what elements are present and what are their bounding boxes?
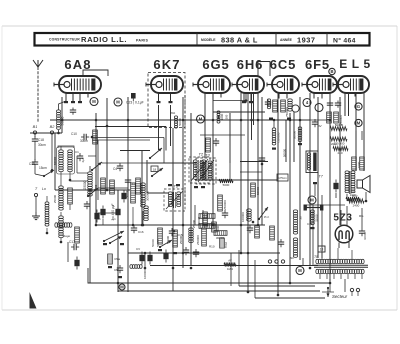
fold mark bbox=[30, 292, 37, 309]
svg-text:C5: C5 bbox=[114, 268, 118, 272]
resistor R17 50000 bbox=[197, 212, 207, 226]
wire bus bbox=[118, 290, 320, 292]
coil L9 bbox=[55, 223, 72, 228]
resistor R41 1000 2,5W bbox=[346, 190, 360, 201]
resistor R8 bbox=[327, 112, 332, 123]
capacitor C2 bbox=[75, 150, 85, 163]
power transformer T6 bbox=[314, 248, 368, 292]
wire grid loop 6C5 bbox=[258, 62, 270, 77]
svg-text:838 A & L: 838 A & L bbox=[221, 35, 258, 44]
resistor R24 bbox=[158, 228, 163, 244]
capacitor C5b bbox=[114, 265, 123, 278]
small box 18 bbox=[151, 166, 158, 172]
capacitor C16 bbox=[304, 205, 324, 211]
label T bbox=[35, 187, 46, 191]
svg-text:CONSTRUCTEUR: CONSTRUCTEUR bbox=[49, 38, 80, 42]
tube V3 6G5 bbox=[193, 76, 230, 99]
svg-text:ANNÉE: ANNÉE bbox=[280, 37, 293, 42]
socket B1 bbox=[33, 131, 36, 137]
wire bbox=[303, 195, 322, 266]
svg-text:50.00: 50.00 bbox=[315, 214, 319, 221]
wire bbox=[88, 268, 92, 283]
capacitor C13e bbox=[94, 210, 99, 223]
capacitor C10 bbox=[71, 132, 93, 143]
wire bbox=[92, 135, 245, 163]
label Rage bbox=[63, 234, 71, 238]
svg-text:T2: T2 bbox=[198, 152, 203, 157]
connector right 2 bbox=[355, 119, 362, 126]
coil L1 bbox=[45, 196, 49, 234]
transformer T3 bbox=[196, 153, 216, 185]
tube V7 EL5 bbox=[333, 76, 369, 116]
svg-text:MODÈLE: MODÈLE bbox=[201, 37, 216, 42]
capacitor C19 bbox=[29, 159, 47, 170]
capacitor C30 bbox=[169, 228, 183, 237]
wire bbox=[35, 167, 44, 176]
svg-text:1937: 1937 bbox=[297, 35, 315, 44]
resistor R4 1000 bbox=[217, 111, 229, 123]
indicator M9 bbox=[119, 284, 125, 290]
svg-text:5Ω: 5Ω bbox=[290, 256, 294, 260]
capacitor C14 bbox=[278, 239, 284, 247]
label tube 6K7 bbox=[153, 57, 180, 72]
wire bus bbox=[120, 150, 150, 152]
wire bbox=[356, 131, 362, 140]
wire bbox=[289, 120, 291, 162]
mains plug bbox=[350, 288, 359, 296]
capacitor C27 bbox=[265, 100, 271, 107]
resistor R7b 750000 bbox=[272, 119, 281, 150]
wire bbox=[306, 204, 345, 206]
resistor R19 30000 bbox=[214, 231, 227, 240]
wire bbox=[329, 266, 331, 284]
svg-text:2 x 450 μμF: 2 x 450 μμF bbox=[111, 203, 115, 220]
wire bus bbox=[147, 192, 168, 194]
svg-text:30000: 30000 bbox=[293, 130, 297, 139]
capacitor C3 bbox=[70, 108, 76, 115]
svg-text:1MΩ: 1MΩ bbox=[227, 267, 233, 271]
electrolytic C20 bbox=[333, 180, 338, 199]
svg-text:C17: C17 bbox=[69, 240, 75, 244]
svg-text:750.000: 750.000 bbox=[277, 132, 281, 143]
resistor R16 50000 bbox=[251, 183, 260, 197]
svg-text:100000: 100000 bbox=[143, 269, 147, 279]
indicator M7 bbox=[308, 196, 316, 204]
label B2 bbox=[50, 125, 56, 129]
label B1 bbox=[33, 125, 38, 129]
coil L12 bbox=[189, 228, 194, 243]
capacitor C15c bbox=[84, 201, 121, 221]
resistor R7 bbox=[281, 100, 289, 117]
svg-text:T8: T8 bbox=[314, 255, 318, 259]
svg-text:30cm: 30cm bbox=[80, 139, 88, 143]
wire bus bbox=[88, 282, 330, 284]
svg-text:30cm: 30cm bbox=[38, 143, 46, 147]
wire bbox=[310, 119, 330, 121]
wire bus bbox=[213, 111, 265, 113]
screen box 6K7 bbox=[148, 73, 185, 128]
output transformer bbox=[345, 171, 355, 194]
svg-text:B1: B1 bbox=[33, 125, 38, 129]
label 5Z3 bbox=[333, 213, 364, 224]
resistor R29 500000 bbox=[330, 123, 347, 146]
wire bus bbox=[148, 162, 196, 164]
label tube EL5 bbox=[339, 57, 370, 71]
svg-text:18: 18 bbox=[153, 167, 157, 171]
svg-text:C10: C10 bbox=[71, 132, 77, 136]
coil L13 300000 bbox=[141, 183, 150, 207]
label tube 6A8 bbox=[64, 57, 91, 72]
wire bbox=[347, 150, 356, 201]
wire bbox=[213, 100, 246, 102]
feet marks bbox=[168, 184, 205, 188]
small box 18b bbox=[318, 246, 325, 252]
label tube 6H6 bbox=[237, 57, 264, 72]
svg-text:20Ω: 20Ω bbox=[331, 142, 337, 146]
resistor R34 1000 bbox=[352, 157, 361, 170]
cluster caps bbox=[247, 221, 259, 238]
socket B2 bbox=[50, 131, 53, 137]
wire bbox=[92, 140, 150, 226]
resistor R35 bbox=[360, 157, 365, 170]
switch S6 bbox=[151, 168, 163, 177]
resistor R1 bbox=[93, 130, 98, 144]
svg-text:5000: 5000 bbox=[223, 183, 230, 187]
resistor R20 250000 bbox=[196, 228, 206, 246]
wire bbox=[240, 171, 262, 173]
wire bbox=[195, 205, 203, 225]
resistor R23 bbox=[75, 227, 80, 243]
capacitor C28 bbox=[327, 101, 333, 108]
svg-text:Lo: Lo bbox=[42, 187, 46, 191]
resistor R50 50000 bbox=[125, 183, 135, 203]
resistor R14 5000 bbox=[219, 179, 233, 187]
circle sym bbox=[292, 105, 299, 112]
tube V4 6H6 bbox=[232, 76, 264, 103]
svg-text:50000: 50000 bbox=[335, 123, 344, 127]
choke coil lower bbox=[290, 238, 318, 260]
svg-text:C23 | 0,1μF: C23 | 0,1μF bbox=[126, 101, 144, 105]
svg-text:6G5: 6G5 bbox=[202, 57, 229, 72]
ground bbox=[32, 212, 40, 220]
wire verticals bbox=[55, 93, 364, 295]
resistor R25 bbox=[166, 230, 177, 247]
svg-text:5Z3: 5Z3 bbox=[333, 213, 352, 224]
foot bbox=[158, 249, 177, 254]
screen dashed line bbox=[184, 95, 186, 205]
capacitor C29 bbox=[335, 101, 341, 108]
wire bus bbox=[50, 119, 310, 121]
svg-text:15cm: 15cm bbox=[39, 166, 47, 170]
svg-text:G: G bbox=[357, 104, 360, 109]
electrolytic CV2 bbox=[147, 252, 152, 265]
svg-text:P.U.: P.U. bbox=[264, 215, 270, 219]
indicator M5 bbox=[315, 104, 323, 112]
antenna bbox=[33, 60, 43, 122]
svg-text:RADIO L.L.: RADIO L.L. bbox=[81, 35, 127, 44]
capacitor C13 bbox=[183, 247, 189, 255]
tube V5 6C5 bbox=[267, 76, 299, 99]
capacitor C8 bbox=[222, 210, 228, 218]
capacitor C17 bbox=[69, 240, 79, 250]
resistor R12 bbox=[136, 178, 141, 194]
coil L7 bbox=[144, 206, 149, 221]
electrolytic CV1 bbox=[136, 247, 145, 265]
resistor R6 bbox=[273, 100, 278, 112]
coil L1a bbox=[53, 146, 63, 172]
svg-text:50000: 50000 bbox=[151, 239, 155, 247]
coil L2a bbox=[53, 186, 63, 210]
wire bbox=[60, 172, 63, 243]
wire bus bbox=[240, 161, 268, 163]
svg-text:C4: C4 bbox=[113, 167, 117, 171]
svg-text:CV: CV bbox=[136, 247, 140, 251]
transformer T1 bbox=[164, 184, 185, 212]
tube V6 6F5 bbox=[302, 76, 337, 99]
wire bbox=[35, 137, 52, 170]
resistor R28 30000 bbox=[293, 127, 303, 145]
svg-text:25000: 25000 bbox=[83, 180, 87, 189]
capacitor C16b bbox=[131, 225, 144, 234]
connector right 1 bbox=[355, 103, 362, 110]
transformer T2 bbox=[189, 152, 210, 184]
resistor R9a bbox=[108, 254, 121, 268]
svg-text:100000: 100000 bbox=[241, 212, 245, 222]
label tube 6F5 bbox=[305, 57, 330, 72]
svg-text:30: 30 bbox=[299, 216, 303, 220]
capacitor C15b bbox=[312, 119, 322, 128]
capacitor C7 bbox=[213, 138, 219, 146]
resistor R11 bbox=[110, 180, 115, 194]
indicator M4 bbox=[303, 99, 311, 107]
svg-text:Secteur: Secteur bbox=[332, 294, 348, 299]
switch S8 bbox=[159, 240, 172, 248]
svg-text:240: 240 bbox=[337, 151, 342, 155]
coil L3 50000 bbox=[57, 101, 67, 134]
title block bbox=[35, 33, 370, 46]
indicator M6 bbox=[296, 267, 304, 275]
indicator M1 bbox=[90, 98, 98, 106]
svg-text:6K7: 6K7 bbox=[153, 57, 180, 72]
label 2x450 bbox=[111, 203, 115, 220]
label Secteur bbox=[332, 294, 348, 299]
svg-text:Rage: Rage bbox=[63, 234, 71, 238]
speaker bbox=[357, 176, 370, 193]
rectifier 5Z3 bbox=[335, 225, 353, 248]
wire bus bbox=[55, 189, 130, 191]
svg-text:C16: C16 bbox=[138, 230, 144, 234]
coil L6 bbox=[288, 99, 293, 111]
svg-text:6F5: 6F5 bbox=[305, 57, 330, 72]
switch S2 bbox=[91, 162, 102, 171]
switch S5 bbox=[149, 148, 162, 159]
svg-text:300000: 300000 bbox=[146, 191, 150, 201]
socket T bbox=[34, 193, 37, 196]
capacitor C11 bbox=[193, 249, 199, 257]
label 25000 bbox=[179, 235, 183, 244]
switch S9 bbox=[109, 236, 122, 244]
foot bbox=[269, 118, 291, 120]
resistor R21 bbox=[199, 214, 215, 219]
svg-text:M: M bbox=[298, 268, 302, 273]
tube V1 6A8 bbox=[54, 70, 108, 103]
svg-text:50000: 50000 bbox=[166, 235, 170, 244]
svg-text:M: M bbox=[116, 100, 120, 105]
svg-text:T3: T3 bbox=[205, 153, 210, 158]
svg-text:R10: R10 bbox=[209, 245, 215, 249]
wire bbox=[231, 250, 255, 298]
label 50000 bbox=[283, 148, 287, 157]
capacitor C4 bbox=[113, 163, 123, 171]
wire bbox=[30, 132, 62, 134]
svg-text:C18: C18 bbox=[307, 222, 313, 226]
label tube 6C5 bbox=[270, 57, 297, 72]
svg-text:4000: 4000 bbox=[94, 184, 98, 191]
svg-text:50000: 50000 bbox=[178, 118, 182, 126]
capacitor C33 bbox=[259, 155, 265, 165]
resistor R10 bbox=[94, 178, 105, 194]
svg-text:N° 464: N° 464 bbox=[333, 36, 356, 44]
svg-text:M: M bbox=[92, 99, 96, 104]
resistor R15 250000 bbox=[218, 195, 227, 211]
coil L11 bbox=[130, 265, 147, 279]
svg-text:R9a: R9a bbox=[115, 257, 121, 261]
capacitor C21 bbox=[359, 208, 367, 240]
resistor R9 bbox=[334, 112, 343, 125]
coil vert 50000 bbox=[307, 210, 319, 229]
wire bus bbox=[95, 127, 166, 151]
capacitor C23 bbox=[131, 93, 136, 101]
coil L1b bbox=[58, 146, 74, 172]
wire bus bbox=[150, 265, 318, 267]
wire bbox=[68, 242, 77, 262]
wire bus bbox=[95, 224, 265, 226]
choke coil upper bbox=[293, 210, 302, 234]
coil L5 bbox=[267, 99, 270, 109]
resistor R22 bbox=[192, 219, 215, 228]
svg-text:M: M bbox=[199, 117, 203, 122]
resistor R51 1M bbox=[224, 259, 236, 272]
socket row bbox=[268, 260, 284, 263]
indicator M3 bbox=[197, 115, 205, 123]
svg-text:25000: 25000 bbox=[53, 194, 57, 203]
switch S3 bbox=[87, 188, 98, 197]
resistor R36 2400 bbox=[348, 192, 367, 208]
coil L2b bbox=[59, 216, 64, 238]
coil R3 50000 bbox=[170, 110, 182, 128]
capacitor C175 bbox=[277, 174, 288, 181]
capacitor C6 bbox=[121, 190, 126, 203]
svg-text:50000: 50000 bbox=[283, 148, 287, 157]
wire bbox=[144, 252, 147, 270]
capacitor C5 bbox=[125, 177, 137, 186]
wire bbox=[195, 179, 277, 181]
wire bus bbox=[128, 252, 280, 254]
label tube 6G5 bbox=[202, 57, 229, 72]
capacitor C18 bbox=[32, 136, 46, 147]
svg-text:10000: 10000 bbox=[363, 232, 367, 240]
svg-text:C18: C18 bbox=[38, 138, 44, 142]
svg-text:50000: 50000 bbox=[156, 239, 160, 247]
svg-text:2400: 2400 bbox=[353, 204, 360, 208]
svg-text:500: 500 bbox=[225, 114, 229, 119]
coil group frame bbox=[57, 147, 75, 174]
cluster2 bbox=[220, 238, 228, 248]
wire bbox=[172, 266, 174, 292]
mains arrow bbox=[322, 287, 334, 297]
switch S7 bbox=[258, 207, 270, 220]
resistor R18 3000 bbox=[212, 222, 220, 232]
svg-text:M: M bbox=[310, 198, 314, 203]
resistor Rg bbox=[68, 188, 73, 204]
svg-text:C19: C19 bbox=[29, 162, 35, 166]
svg-text:E L 5: E L 5 bbox=[339, 57, 370, 71]
svg-text:50000: 50000 bbox=[256, 186, 260, 195]
coil L8 bbox=[241, 209, 251, 222]
wire bbox=[69, 172, 72, 210]
svg-text:AVs: AVs bbox=[351, 190, 357, 194]
wire bus bbox=[255, 297, 325, 299]
resistor R33 240 bbox=[331, 142, 348, 155]
wire bbox=[205, 163, 230, 180]
indicator M2 bbox=[114, 98, 122, 106]
svg-text:M: M bbox=[357, 121, 361, 126]
tube V2 6K7 bbox=[146, 76, 183, 103]
coil L4 bbox=[83, 166, 92, 196]
electrolytic C9 bbox=[74, 257, 79, 270]
wire bbox=[35, 197, 37, 212]
svg-text:PARIS: PARIS bbox=[136, 39, 149, 43]
svg-text:250000: 250000 bbox=[223, 200, 227, 210]
label 50000 pair bbox=[151, 239, 160, 247]
svg-text:B: B bbox=[330, 69, 333, 74]
wire bbox=[77, 156, 88, 173]
electrolytic C12 bbox=[163, 250, 168, 263]
label R10 bbox=[209, 245, 215, 249]
transformer T5 bbox=[306, 151, 324, 196]
svg-text:7062: 7062 bbox=[224, 241, 228, 248]
svg-text:250000: 250000 bbox=[196, 235, 200, 245]
resistor R13 bbox=[206, 138, 211, 152]
wire 5Z3 anodes bbox=[341, 206, 347, 226]
resistor R26 bbox=[270, 226, 275, 240]
switch S4 wave bbox=[103, 231, 124, 245]
svg-text:M: M bbox=[120, 285, 124, 290]
svg-text:25000: 25000 bbox=[179, 235, 183, 244]
svg-text:4V: 4V bbox=[318, 124, 322, 128]
svg-text:RG: RG bbox=[359, 214, 364, 218]
switch S1 bbox=[43, 169, 54, 177]
label C23 bbox=[126, 101, 144, 105]
wire bbox=[70, 156, 118, 213]
svg-text:6C5: 6C5 bbox=[270, 57, 297, 72]
svg-text:C1: C1 bbox=[75, 150, 79, 154]
svg-text:4μF: 4μF bbox=[81, 157, 85, 162]
indicator B bbox=[329, 68, 335, 74]
svg-text:1000: 1000 bbox=[220, 113, 224, 120]
svg-text:6H6: 6H6 bbox=[237, 57, 264, 72]
wire bus bbox=[239, 285, 315, 287]
svg-text:175cm: 175cm bbox=[278, 176, 287, 180]
